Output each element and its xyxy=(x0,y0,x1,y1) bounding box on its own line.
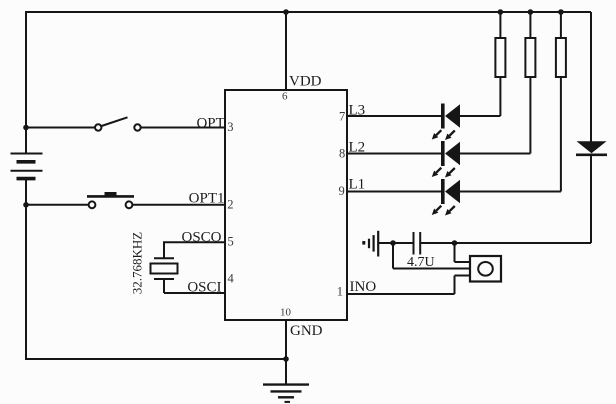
label OSCO xyxy=(181,230,221,246)
svg-text:9: 9 xyxy=(339,184,345,198)
wire: push button to pin 2 OPT1 xyxy=(132,204,225,206)
node: junction battery/switch xyxy=(23,125,29,131)
pin number 4 xyxy=(228,272,235,286)
label L1 xyxy=(349,177,366,193)
resistor R3 xyxy=(556,38,566,77)
capacitor C1 4.7U xyxy=(414,232,421,255)
label OPT1 xyxy=(189,191,225,207)
svg-text:3: 3 xyxy=(227,120,233,134)
wire: pin 7 L3 to LED1 xyxy=(347,115,441,117)
label L3 xyxy=(349,103,366,119)
svg-text:INO: INO xyxy=(350,279,377,295)
svg-text:VDD: VDD xyxy=(289,74,322,90)
node: junction battery/button xyxy=(23,202,29,208)
resistor R2 xyxy=(525,38,535,77)
node: junction cap left / mic mid line xyxy=(390,240,396,246)
wire: crystal to OSCI pin 4 xyxy=(164,279,225,293)
label L2 xyxy=(349,140,366,156)
wire: bottom ground rail xyxy=(25,358,286,360)
pin number 6 xyxy=(282,90,288,102)
pin number 5 xyxy=(228,235,234,249)
svg-text:10: 10 xyxy=(280,307,292,319)
svg-text:32.768KHZ: 32.768KHZ xyxy=(130,232,145,295)
signal ground (sideways) xyxy=(362,231,378,257)
LED D1 xyxy=(432,104,460,141)
pin number 1 xyxy=(337,285,343,299)
wire: LED1 to R1 xyxy=(460,77,500,116)
node: junction ground rail / GND stem xyxy=(283,356,289,362)
svg-text:OSCO: OSCO xyxy=(181,230,221,246)
node: junction VDD stem on top rail xyxy=(283,9,289,15)
diode D4 xyxy=(576,141,607,155)
wire: R2 stem from rail xyxy=(529,12,531,38)
svg-text:OSCI: OSCI xyxy=(187,280,221,296)
LED D2 xyxy=(432,141,460,178)
label GND xyxy=(290,323,323,339)
svg-text:1: 1 xyxy=(337,285,343,299)
node: junction cap right / mic top stub xyxy=(452,240,458,246)
op-chip U1 body xyxy=(225,90,347,320)
wire: R3 stem from rail xyxy=(560,12,562,38)
pin number 8 xyxy=(339,147,345,161)
svg-text:7: 7 xyxy=(339,110,345,124)
svg-text:GND: GND xyxy=(290,323,323,339)
pin number 2 xyxy=(227,197,233,211)
LED D3 xyxy=(432,179,460,216)
microphone MIC1 xyxy=(470,256,501,282)
wire: GND stem pin 10 xyxy=(285,320,287,384)
pin number 7 xyxy=(339,110,345,124)
wire: pin 9 L1 to LED3 xyxy=(347,191,441,193)
svg-text:6: 6 xyxy=(282,90,288,102)
push button S2 xyxy=(87,192,134,208)
node: junction R2 on rail xyxy=(528,9,534,15)
svg-text:OPT1: OPT1 xyxy=(189,191,225,207)
ground symbol xyxy=(263,385,309,402)
wire: mic bottom terminal to INO pin 1 xyxy=(347,276,470,295)
wire: LED3 to R3 xyxy=(460,77,561,192)
svg-text:L3: L3 xyxy=(349,103,366,119)
pin number 9 xyxy=(339,184,345,198)
svg-text:L2: L2 xyxy=(349,140,366,156)
svg-text:OPT: OPT xyxy=(196,115,224,131)
wire: right rail upper (rail to diode) xyxy=(590,12,592,142)
crystal Y1 32.768KHZ xyxy=(151,258,178,279)
label OPT xyxy=(196,115,224,131)
wire: battery to switch xyxy=(26,127,95,129)
battery B1 xyxy=(11,154,43,179)
wire: left rail lower (battery bottom lead to ground rail) xyxy=(25,180,27,361)
node: junction R3 on rail xyxy=(558,9,564,15)
pin number 10 xyxy=(280,307,292,319)
wire: supply to mic top terminal xyxy=(455,243,471,262)
resistor R1 xyxy=(495,38,505,77)
svg-text:8: 8 xyxy=(339,147,345,161)
value label 32.768KHZ xyxy=(130,232,145,295)
wire: OSCO pin 5 to crystal xyxy=(164,241,225,258)
svg-text:4: 4 xyxy=(228,272,235,286)
wire: junction to mic mid terminal xyxy=(393,243,470,269)
wire: switch to pin 3 OPT xyxy=(141,127,225,129)
wire: cap to signal ground xyxy=(378,242,413,244)
wire: pin 8 L2 to LED2 xyxy=(347,153,441,155)
node: junction R1 on rail xyxy=(498,9,504,15)
svg-text:L1: L1 xyxy=(349,177,366,193)
wire: LED2 to R2 xyxy=(460,77,530,154)
wire: top VDD rail xyxy=(26,11,591,13)
label OSCI xyxy=(187,280,221,296)
svg-text:5: 5 xyxy=(228,235,234,249)
svg-text:2: 2 xyxy=(227,197,233,211)
wire: battery to push button xyxy=(26,204,89,206)
label INO xyxy=(350,279,377,295)
wire: R1 stem from rail xyxy=(499,12,501,38)
wire: right rail lower (diode to mic supply) xyxy=(421,156,591,244)
pin number 3 xyxy=(227,120,233,134)
wire: VDD stem pin 6 xyxy=(285,12,287,90)
value label 4.7U xyxy=(407,255,435,270)
wire: left rail upper (battery top lead) xyxy=(25,11,27,153)
switch S1 xyxy=(95,117,141,130)
label VDD xyxy=(289,74,322,90)
